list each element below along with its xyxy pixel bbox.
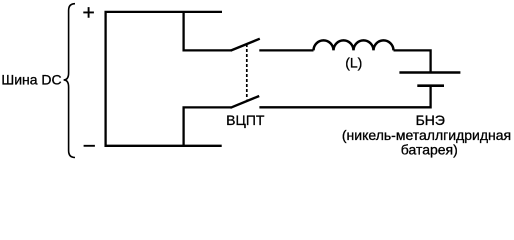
wire: upper switch to inductor [259,49,313,51]
inductor L [314,40,394,50]
svg-text:(L): (L) [345,55,362,71]
svg-text:(никель-металлгидридная: (никель-металлгидридная [342,127,511,143]
battery БНЭ short plate [417,84,444,87]
switch ВЦПТ upper blade [231,39,260,51]
node: plus terminal [83,7,94,18]
switch ВЦПТ gang link (dashed) [246,44,248,99]
svg-text:ВЦПТ: ВЦПТ [226,112,265,128]
wire: inductor to battery top [394,50,431,72]
wire: lower switch to bottom step [184,107,231,145]
svg-text:БНЭ: БНЭ [416,112,445,128]
svg-text:Шина DC: Шина DC [1,71,61,87]
node: DC bus brace [64,4,75,158]
wire: top step down to upper switch [184,12,231,51]
switch ВЦПТ lower blade [230,96,259,108]
svg-text:батарея): батарея) [401,142,458,158]
node: minus terminal [84,145,95,147]
battery БНЭ long plate [399,71,460,74]
wire: left DC bus with top and bottom rails [106,12,222,146]
wire: battery bottom to lower switch [259,86,430,108]
